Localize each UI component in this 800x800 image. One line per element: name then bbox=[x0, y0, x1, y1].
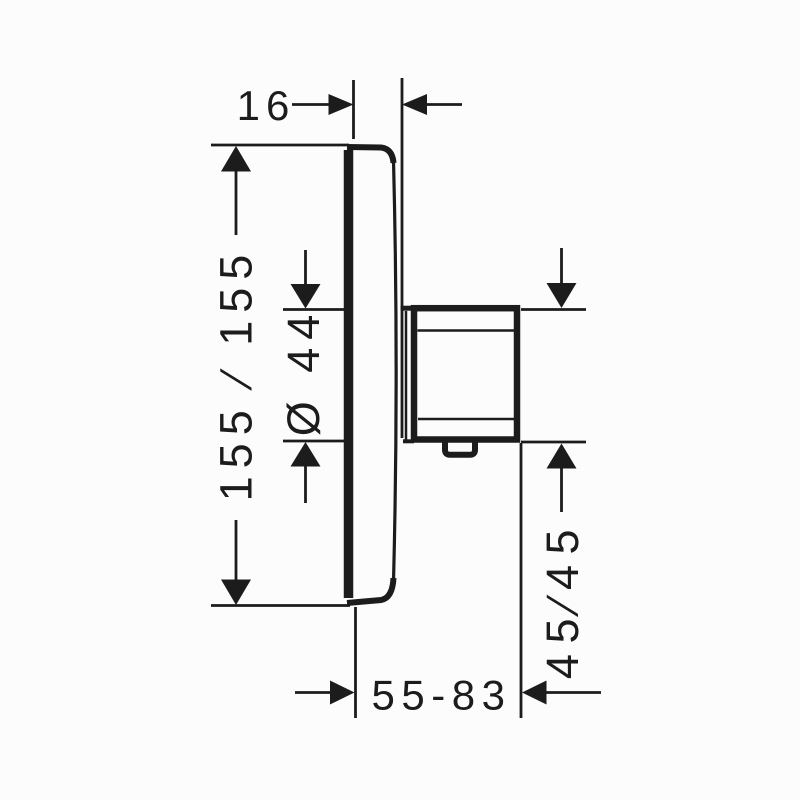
svg-text:16: 16 bbox=[237, 82, 296, 129]
svg-text:55-83: 55-83 bbox=[372, 672, 512, 719]
svg-text:45⁄45: 45⁄45 bbox=[537, 519, 588, 679]
svg-text:Ø 44: Ø 44 bbox=[278, 307, 329, 437]
svg-text:155 ⁄ 155: 155 ⁄ 155 bbox=[211, 247, 262, 502]
